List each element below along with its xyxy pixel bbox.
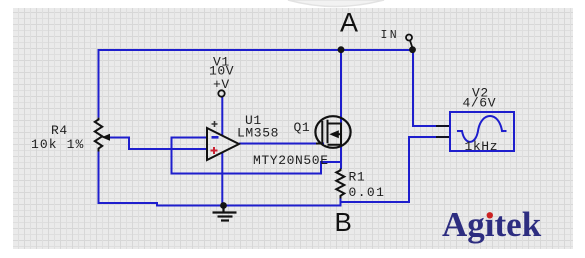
wire: top rail from R4 top corner to IN junction (99, 50, 414, 118)
op-amp inverting input marker (212, 136, 219, 139)
V1 +V power terminal circle (218, 90, 224, 96)
V2 pin stubs (436, 125, 449, 127)
Q1 drain/source stubs and right bar (328, 124, 342, 145)
wire: op-amp output to Q1 gate (239, 143, 324, 145)
V2 sine waveform (457, 116, 507, 142)
V2 source box (450, 112, 514, 151)
transistor Q1 (N-MOSFET) body circle (315, 116, 350, 148)
svg-text:10k 1%: 10k 1% (31, 137, 84, 152)
Q1 body stub with arrow (336, 133, 341, 135)
ground junction dot (220, 202, 227, 209)
op-amp non-inverting input marker (211, 147, 218, 154)
svg-text:Agıtek: Agıtek (442, 205, 542, 244)
Q1 gate bar and gate lead (316, 121, 322, 144)
Q1 channel bar (327, 120, 329, 144)
IN terminal junction dot (409, 46, 416, 53)
svg-text:4/6V: 4/6V (463, 96, 497, 111)
page shadow arc in top margin (288, 0, 384, 7)
R4 wiper arrow (102, 134, 111, 141)
svg-text:LM358: LM358 (237, 126, 279, 141)
svg-text:+V: +V (213, 77, 230, 92)
wire: Q1 source to R1 top (340, 144, 342, 170)
ground symbol (213, 206, 237, 221)
wire: R1 bottom lead (340, 198, 342, 203)
svg-text:IN: IN (381, 29, 400, 42)
svg-text:MTY20N50E: MTY20N50E (253, 153, 329, 168)
wire: op-amp bottom to ground rail (221, 152, 223, 206)
svg-text:B: B (335, 207, 352, 237)
wire: bottom rail from R4 bottom to V2 lower pin (99, 137, 451, 206)
wire: R4 wiper to op-amp + input (107, 138, 207, 150)
op-amp U1 triangle (207, 128, 239, 160)
wire: +V supply to op-amp top (221, 97, 223, 137)
IN terminal circle (406, 35, 412, 41)
svg-text:R4: R4 (51, 123, 68, 138)
op-amp power + marker (212, 121, 218, 127)
node A junction dot (338, 46, 345, 53)
svg-text:0.01: 0.01 (349, 185, 386, 200)
svg-text:1kHz: 1kHz (465, 139, 499, 154)
resistor R4 (potentiometer body zigzag) (95, 118, 102, 152)
IN terminal stem (410, 41, 413, 49)
resistor R1 zigzag (336, 169, 344, 199)
wire: node A to Q1 drain (340, 50, 342, 124)
Agitek logo red i-dot (487, 212, 493, 218)
svg-text:Q1: Q1 (294, 120, 311, 135)
wire: vertical to V2 upper pin (413, 50, 450, 126)
svg-text:A: A (340, 8, 358, 38)
svg-text:R1: R1 (349, 170, 366, 185)
wire: feedback from Q1 source to op-amp - input (172, 138, 341, 174)
